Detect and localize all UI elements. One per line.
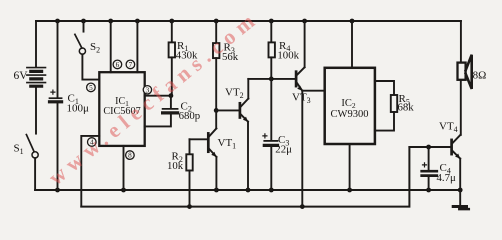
- transistor Q4 VT4: [452, 135, 461, 159]
- wire battery to switch S1: [35, 88, 37, 134]
- op-amp U1 IC1 CIC5607 box: [99, 72, 144, 146]
- resistor R4: [269, 21, 275, 79]
- resistor R3: [213, 21, 219, 110]
- transistor Q1 VT1: [208, 128, 216, 157]
- svg-text:S1: S1: [14, 143, 24, 156]
- node top rail junction R4: [269, 19, 274, 24]
- wire VT2 base: [216, 109, 240, 111]
- wire S2 to IC1 pin5: [82, 54, 99, 79]
- wire VT2 collector up: [247, 79, 249, 99]
- battery B1 6V: [27, 68, 46, 87]
- pin 7 label: [126, 60, 135, 69]
- node top rail junction VT3 collector: [302, 19, 307, 24]
- wire S1 to bottom rail A: [34, 158, 36, 190]
- capacitor C4: [422, 147, 437, 190]
- node top rail junction pin7: [135, 19, 140, 24]
- node C2 R1 pin3 junction: [169, 93, 174, 98]
- wire IC1 pin8 to rail A: [123, 146, 125, 190]
- svg-text:6V: 6V: [14, 70, 29, 82]
- wire VT1 base: [190, 138, 209, 140]
- pin 3 label: [143, 86, 151, 95]
- svg-text:22μ: 22μ: [275, 144, 292, 156]
- svg-text:7: 7: [129, 61, 133, 69]
- svg-text:4.7μ: 4.7μ: [437, 172, 456, 184]
- svg-text:100k: 100k: [277, 49, 299, 61]
- pin 5 label: [87, 83, 96, 92]
- node rail B junction R2: [187, 204, 192, 209]
- node rail A junction VT1 emitter: [214, 188, 219, 193]
- node top rail junction IC2 top pin: [350, 19, 355, 24]
- transistor Q2 VT2: [240, 99, 248, 122]
- wire VT3 collector to rail: [304, 21, 306, 67]
- svg-text:VT2: VT2: [225, 87, 244, 100]
- node C4 junction: [426, 145, 431, 150]
- svg-text:8Ω: 8Ω: [473, 70, 487, 82]
- svg-text:68k: 68k: [398, 102, 415, 114]
- wire IC2 bottom pin to rail A: [349, 144, 351, 190]
- wire VT4 emitter to rail A: [459, 159, 461, 190]
- node rail A junction IC2 bottom pin: [347, 188, 352, 193]
- node rail A junction pin8: [121, 188, 126, 193]
- wire IC1 pin7 to rail: [136, 21, 138, 72]
- svg-text:VT3: VT3: [292, 92, 311, 105]
- ground: [453, 190, 469, 209]
- svg-text:680p: 680p: [179, 110, 201, 122]
- wire IC2 to R5 top: [375, 81, 394, 95]
- node top rail junction pin6: [108, 19, 113, 24]
- node rail A junction VT4 emitter: [458, 188, 463, 193]
- node rail A junction C4: [426, 188, 431, 193]
- pin 6 label: [113, 60, 122, 69]
- wire IC1 pin4 to rail B: [81, 136, 99, 207]
- capacitor C1: [50, 21, 62, 190]
- wire VT2 collector to VT3 base: [248, 78, 296, 80]
- node rail A junction VT2 emitter: [246, 188, 251, 193]
- pin 8 label: [126, 151, 135, 160]
- svg-text:10k: 10k: [167, 160, 184, 172]
- node rail B junction VT3 emitter line: [300, 204, 305, 209]
- wire IC1 pin6 to rail: [110, 21, 112, 72]
- wire VT2 emitter to rail A: [247, 122, 249, 190]
- op-amp U2 IC2 CW9300 box: [325, 68, 375, 144]
- svg-text:8: 8: [128, 152, 132, 160]
- wire VT1 collector: [215, 110, 217, 128]
- pin 4 label: [88, 138, 97, 147]
- capacitor C2: [145, 96, 178, 127]
- node top rail junction R1: [169, 19, 174, 24]
- svg-text:100μ: 100μ: [67, 103, 90, 115]
- switch S1: [26, 135, 38, 158]
- wire IC1 pin3: [145, 95, 171, 97]
- node top rail junction C1: [55, 19, 60, 24]
- svg-text:CW9300: CW9300: [331, 109, 369, 120]
- wire VT1 emitter to rail A: [215, 157, 217, 190]
- node rail A junction C1: [55, 188, 60, 193]
- wire battery top drop: [35, 21, 37, 67]
- wire VT3 emitter down to rail B: [301, 91, 303, 207]
- wire IC2 top pin: [351, 21, 353, 68]
- wire speaker drop from rail: [460, 21, 462, 63]
- wire VT4 base feed: [409, 146, 451, 148]
- speaker LS 8ohm: [458, 55, 472, 89]
- wire VT4 collector to speaker: [460, 80, 462, 135]
- node R4 bottom junction: [269, 77, 274, 82]
- node top rail junction R3: [214, 19, 219, 24]
- node R3 VT2 base VT1 collector junction: [214, 108, 219, 113]
- svg-text:VT1: VT1: [218, 137, 237, 150]
- switch S2: [75, 21, 86, 54]
- wire R5 bottom to IC2: [375, 112, 394, 131]
- transistor Q3 VT3: [296, 67, 305, 91]
- node top rail junction S2: [81, 19, 86, 24]
- svg-text:VT4: VT4: [439, 121, 458, 134]
- resistor R1: [169, 21, 175, 96]
- wire top supply rail: [36, 20, 461, 22]
- node rail A junction C3: [269, 188, 274, 193]
- capacitor C3: [263, 79, 278, 190]
- svg-text:S2: S2: [90, 41, 100, 54]
- svg-text:5: 5: [89, 84, 93, 92]
- svg-text:6: 6: [116, 61, 120, 69]
- wire VT3 emitter to IC2: [302, 90, 324, 92]
- resistor R5: [391, 95, 397, 112]
- wire bottom rail B (pin4 net): [81, 147, 409, 207]
- resistor R2: [186, 139, 192, 206]
- wire bottom rail A (ground rail): [35, 189, 460, 191]
